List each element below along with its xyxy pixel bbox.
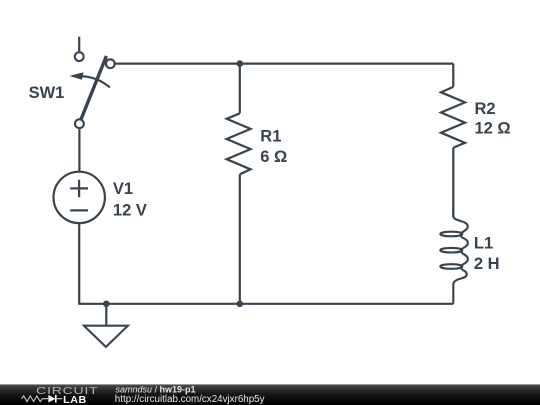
svg-text:12 V: 12 V	[113, 202, 147, 220]
svg-text:12 Ω: 12 Ω	[475, 119, 511, 137]
svg-text:2 H: 2 H	[474, 255, 500, 273]
svg-text:R1: R1	[260, 127, 281, 145]
CircuitLab logo resistor zigzag	[22, 396, 49, 402]
wire V1 to bottom rail	[79, 223, 106, 304]
resistor R1	[227, 64, 251, 304]
voltage source V1	[53, 172, 104, 223]
wire top rail	[115, 62, 454, 64]
svg-text:L1: L1	[474, 235, 493, 253]
node bottom junction R1	[237, 301, 244, 308]
inductor L1	[440, 207, 468, 304]
wire bottom rail	[106, 303, 453, 305]
footer bar	[0, 384, 540, 405]
svg-text:R2: R2	[475, 100, 496, 118]
svg-text:V1: V1	[113, 180, 133, 198]
svg-text:6 Ω: 6 Ω	[260, 148, 287, 166]
CircuitLab logo diode	[48, 395, 62, 403]
node top junction	[237, 60, 244, 67]
wire switch to V1	[78, 129, 80, 171]
svg-text:LAB: LAB	[63, 395, 87, 405]
svg-text:http://circuitlab.com/cx24vjxr: http://circuitlab.com/cx24vjxr6hp5y	[115, 394, 265, 405]
svg-text:SW1: SW1	[29, 84, 65, 102]
ground	[84, 304, 128, 347]
switch SW1	[70, 37, 115, 128]
node ground junction	[103, 301, 110, 308]
resistor R2	[441, 64, 465, 217]
